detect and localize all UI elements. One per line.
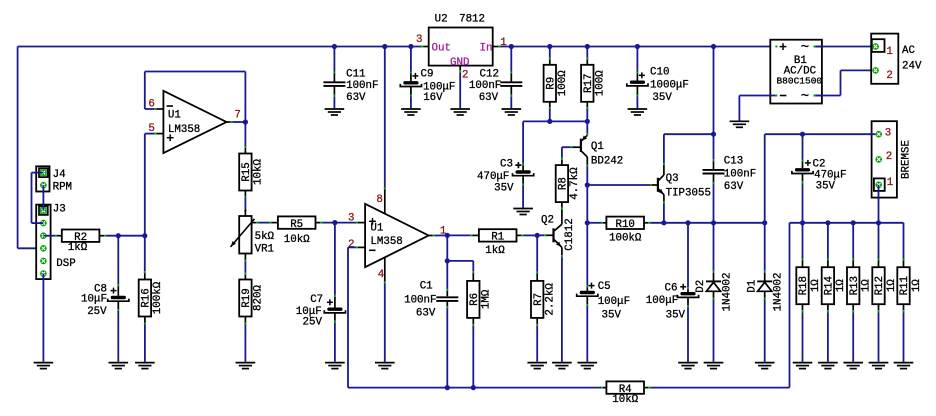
wire J4 pin2 to J3 pin1 xyxy=(42,185,44,210)
svg-text:63V: 63V xyxy=(346,92,366,104)
svg-text:1000μF: 1000μF xyxy=(650,80,689,92)
svg-text:1Ω: 1Ω xyxy=(886,279,898,292)
wire shunt rail xyxy=(790,222,904,224)
svg-text:R10: R10 xyxy=(615,219,634,231)
svg-text:Q2: Q2 xyxy=(541,215,554,227)
node junction U1A output xyxy=(243,119,248,124)
pin 6 of U1A xyxy=(156,108,163,110)
wire J4 pin1 to J3 pin2 xyxy=(32,172,44,174)
ground for R19 xyxy=(236,362,256,364)
pin 3 of U1B xyxy=(358,222,365,224)
wire R5 to pin 3 xyxy=(322,222,356,224)
svg-text:1: 1 xyxy=(887,177,893,189)
svg-text:24V: 24V xyxy=(902,61,922,73)
ground for C8 xyxy=(109,362,129,364)
svg-text:35V: 35V xyxy=(652,92,672,104)
node junction R9 bottom xyxy=(547,119,552,124)
node junction D1 xyxy=(762,220,767,225)
resistor R18 1 ohm xyxy=(802,223,804,259)
svg-text:3: 3 xyxy=(885,127,891,139)
wire R1 to Q2 base xyxy=(523,234,537,236)
svg-text:1Ω: 1Ω xyxy=(861,279,873,292)
svg-text:63V: 63V xyxy=(724,181,744,193)
svg-text:35V: 35V xyxy=(494,183,514,195)
svg-text:U2: U2 xyxy=(435,14,448,26)
ground for C11 xyxy=(325,108,345,110)
diode D2 1N4002 xyxy=(713,223,715,271)
pin 1 of U2 (In) xyxy=(493,46,498,48)
capacitor C1 100nF xyxy=(446,289,448,291)
svg-text:R12: R12 xyxy=(874,276,886,295)
wire U1A feedback loop xyxy=(244,72,246,123)
node junction Q3 base tap xyxy=(585,182,590,187)
wire U1A pin 5 down to R2 net xyxy=(145,133,155,135)
svg-text:63V: 63V xyxy=(479,92,499,104)
svg-text:100nF: 100nF xyxy=(724,168,756,180)
ground for R13 xyxy=(843,362,863,364)
pin 1 of J4 xyxy=(40,169,47,176)
wire BREMSE pin 1 to shunt rail xyxy=(878,185,880,223)
svg-text:R18: R18 xyxy=(798,276,810,295)
svg-text:1: 1 xyxy=(500,37,506,49)
capacitor C8 10uF electrolytic xyxy=(117,236,119,285)
wire Q1 base to R8 xyxy=(562,146,571,148)
wire D1 column upper xyxy=(764,134,766,223)
svg-text:C9: C9 xyxy=(421,69,434,81)
node junction R17 xyxy=(585,44,590,49)
svg-text:4.7kΩ: 4.7kΩ xyxy=(569,167,581,200)
trimmer VR1 5k xyxy=(244,210,246,212)
wire bottom rail right section xyxy=(650,387,789,389)
svg-text:R19: R19 xyxy=(241,288,253,307)
node junction C10 xyxy=(635,44,640,49)
wire +V top rail left section xyxy=(18,46,422,48)
wire B1 - to ground xyxy=(739,95,775,97)
capacitor C3 470uF electrolytic xyxy=(522,164,524,166)
svg-text:2.2kΩ: 2.2kΩ xyxy=(545,283,557,316)
svg-text:R8: R8 xyxy=(558,177,570,190)
ground for D1 xyxy=(755,362,775,364)
resistor R8 4.7k xyxy=(561,158,563,160)
ground for R7 xyxy=(527,362,547,364)
svg-text:1Ω: 1Ω xyxy=(835,279,847,292)
ground for C10 xyxy=(628,108,648,110)
pin 2 of U2 (GND) xyxy=(459,66,461,71)
capacitor C13 100nF xyxy=(713,47,715,135)
voltage regulator U2 7812 xyxy=(429,28,493,66)
wire Q3 emitter to output rail xyxy=(663,203,665,223)
resistor R6 1M xyxy=(472,271,474,273)
svg-text:J4: J4 xyxy=(53,169,66,181)
svg-text:C13: C13 xyxy=(724,155,743,167)
wire B1 ~2 to AC pin 2 xyxy=(816,95,841,97)
ground for J3 xyxy=(34,362,54,364)
svg-text:RPM: RPM xyxy=(53,182,72,194)
svg-text:TIP3055: TIP3055 xyxy=(666,187,711,199)
pin 8 of U1B xyxy=(384,188,386,190)
node junction R17 bottom / Q1 emitter xyxy=(585,119,590,124)
pin 1 of BREMSE xyxy=(875,182,882,189)
node junction R6 tap xyxy=(445,258,450,263)
wire sense riser xyxy=(789,223,791,388)
svg-text:2: 2 xyxy=(348,239,354,251)
resistor R17 100 ohm xyxy=(586,47,588,58)
pin 5 of U1A xyxy=(156,133,163,135)
diode D1 1N4002 xyxy=(764,223,766,271)
ground for C6 xyxy=(678,362,698,364)
resistor R13 1 ohm xyxy=(852,223,854,259)
ground for C5 xyxy=(578,362,598,364)
svg-text:3: 3 xyxy=(416,34,422,46)
svg-text:BD242: BD242 xyxy=(591,156,623,168)
wire U1A output xyxy=(232,121,245,123)
svg-text:R15: R15 xyxy=(241,162,253,181)
pin ~2 of B1 xyxy=(814,95,822,97)
svg-text:C3: C3 xyxy=(500,159,513,171)
svg-text:C1812: C1812 xyxy=(564,218,576,250)
svg-text:LM358: LM358 xyxy=(168,124,200,136)
svg-text:100μF: 100μF xyxy=(598,296,630,308)
capacitor C12 100nF xyxy=(510,47,512,72)
svg-text:35V: 35V xyxy=(666,309,686,321)
svg-text:25V: 25V xyxy=(87,306,107,318)
svg-text:7812: 7812 xyxy=(459,14,485,26)
pin 2 of J4 xyxy=(40,182,47,189)
svg-text:C7: C7 xyxy=(310,294,323,306)
node junction R16 / pin5 xyxy=(142,233,147,238)
capacitor C10 1000uF electrolytic xyxy=(636,47,638,72)
svg-text:In: In xyxy=(480,43,493,55)
capacitor C2 470uF electrolytic xyxy=(802,134,804,159)
svg-text:C6: C6 xyxy=(665,283,678,295)
wire B1 ~1 to AC pin 1 xyxy=(816,46,872,48)
pin - of B1 xyxy=(775,95,777,97)
wire left vertical to J3 xyxy=(17,47,19,249)
pin 3 of BREMSE xyxy=(875,131,882,138)
pin ~1 of B1 xyxy=(814,46,822,48)
svg-text:5kΩ: 5kΩ xyxy=(255,231,275,243)
ground for R12 xyxy=(869,362,889,364)
svg-text:R13: R13 xyxy=(849,276,861,295)
svg-text:1: 1 xyxy=(886,46,892,58)
wire output rail y=222.8 xyxy=(650,222,765,224)
wire op-amp V+ supply (pin 8) xyxy=(384,47,386,188)
svg-text:35V: 35V xyxy=(816,181,836,193)
node junction R12 / BREMSE pin1 xyxy=(876,220,881,225)
transistor Q3 TIP3055 NPN xyxy=(587,184,650,186)
pin 1 of J3 xyxy=(40,207,47,214)
node junction C2 top xyxy=(800,132,805,137)
resistor R5 10k xyxy=(269,222,271,224)
wire pin 2 feedback from bottom rail xyxy=(348,246,356,248)
svg-text:820Ω: 820Ω xyxy=(253,285,265,311)
svg-text:100nF: 100nF xyxy=(404,295,436,307)
wire output node down xyxy=(446,235,448,289)
svg-text:LM358: LM358 xyxy=(370,236,402,248)
svg-text:1kΩ: 1kΩ xyxy=(68,242,88,254)
pin 1 of AC connector xyxy=(872,43,879,50)
svg-text:DSP: DSP xyxy=(56,258,75,270)
svg-text:R11: R11 xyxy=(899,276,911,295)
wire feedback bottom rail xyxy=(348,387,601,389)
bridge rectifier B1 B80C1500 xyxy=(770,40,822,104)
pin 4 of U1B xyxy=(384,257,386,281)
svg-text:10kΩ: 10kΩ xyxy=(253,159,265,185)
svg-text:D1: D1 xyxy=(746,280,758,293)
node junction R6 bottom xyxy=(471,385,476,390)
svg-text:2: 2 xyxy=(886,70,892,82)
resistor R11 1 ohm xyxy=(903,223,905,259)
ground for C9 xyxy=(401,108,421,110)
resistor R19 820 ohm xyxy=(244,273,246,275)
svg-text:100nF: 100nF xyxy=(469,80,501,92)
svg-text:470μF: 470μF xyxy=(477,171,509,183)
transistor Q1 BD242 PNP xyxy=(586,121,588,133)
svg-text:C2: C2 xyxy=(813,158,826,170)
svg-text:Out: Out xyxy=(432,43,451,55)
capacitor C6 100uF electrolytic xyxy=(687,223,689,287)
svg-text:1N4002: 1N4002 xyxy=(722,273,734,312)
capacitor C9 100uF electrolytic xyxy=(410,47,412,72)
wire +24V rail right of U2 xyxy=(500,46,775,48)
ground for C3 xyxy=(513,208,533,210)
capacitor C11 100nF xyxy=(333,47,335,72)
svg-text:C5: C5 xyxy=(598,281,611,293)
svg-text:J3: J3 xyxy=(53,204,66,216)
resistor R16 100k xyxy=(144,236,146,272)
node junction R13 xyxy=(851,220,856,225)
capacitor C5 100uF electrolytic xyxy=(586,223,588,285)
wire pin 4 to ground xyxy=(384,283,386,361)
pin 3 of U2 (Out) xyxy=(421,46,424,48)
wire J3 pin6 to ground xyxy=(42,274,44,362)
svg-text:1MΩ: 1MΩ xyxy=(481,289,493,309)
svg-text:1Ω: 1Ω xyxy=(911,279,923,292)
node junction R18 / C2 bottom xyxy=(800,220,805,225)
svg-text:2: 2 xyxy=(886,151,892,163)
pin 1 of U1B (output) xyxy=(429,235,433,237)
svg-text:Q3: Q3 xyxy=(666,173,679,185)
svg-text:10kΩ: 10kΩ xyxy=(612,394,638,406)
svg-text:R9: R9 xyxy=(545,77,557,90)
node junction C7 xyxy=(332,220,337,225)
resistor R10 100k xyxy=(587,222,601,224)
node junction C9 on top rail xyxy=(408,44,413,49)
pin 5 of J3 xyxy=(40,258,47,265)
op-amp U1 LM358 (unit B) xyxy=(365,204,429,267)
node junction U1B output xyxy=(445,233,450,238)
node junction C12 xyxy=(509,44,514,49)
node junction R9 xyxy=(547,44,552,49)
resistor R15 10k xyxy=(244,122,246,147)
svg-text:U1: U1 xyxy=(168,109,181,121)
svg-text:8: 8 xyxy=(376,194,382,206)
svg-text:R16: R16 xyxy=(141,288,153,307)
svg-text:7: 7 xyxy=(234,109,240,121)
ground for U2 xyxy=(450,108,470,110)
ground for Q2 xyxy=(552,362,572,364)
wire R2 to C8/R16 xyxy=(106,235,145,237)
svg-text:10kΩ: 10kΩ xyxy=(284,234,310,246)
node junction C13 top xyxy=(711,44,716,49)
node junction R1 right / R7 xyxy=(535,233,540,238)
pin 2 of J3 xyxy=(40,220,47,227)
svg-text:~: ~ xyxy=(801,89,809,105)
pin 2 of AC connector xyxy=(872,67,879,74)
svg-text:100nF: 100nF xyxy=(346,80,378,92)
connector BREMSE xyxy=(872,121,897,197)
svg-text:100Ω: 100Ω xyxy=(557,70,569,96)
wire VR1 to R19 xyxy=(244,262,246,273)
resistor R9 100 ohm xyxy=(549,47,551,58)
svg-text:D2: D2 xyxy=(695,280,707,293)
ground for C12 xyxy=(502,108,522,110)
svg-text:16V: 16V xyxy=(423,92,443,104)
svg-text:100Ω: 100Ω xyxy=(595,70,607,96)
node junction R14 xyxy=(825,220,830,225)
node junction op-amp supply on top rail xyxy=(382,44,387,49)
svg-text:R7: R7 xyxy=(533,293,545,306)
svg-text:100kΩ: 100kΩ xyxy=(609,232,642,244)
resistor R7 2.2k xyxy=(536,235,538,271)
node junction Q3 emitter xyxy=(661,220,666,225)
svg-text:1N4002: 1N4002 xyxy=(773,273,785,312)
svg-text:R6: R6 xyxy=(469,293,481,306)
ground for R14 xyxy=(818,362,838,364)
resistor R12 1 ohm xyxy=(878,223,880,259)
wire R6 tap xyxy=(447,260,473,262)
svg-text:~: ~ xyxy=(801,40,809,56)
node junction C6 xyxy=(685,220,690,225)
svg-text:R5: R5 xyxy=(290,219,303,231)
ground for R16 xyxy=(135,362,155,364)
node junction C13 / Q3 collector xyxy=(711,132,716,137)
ground for R18 xyxy=(793,362,813,364)
svg-text:25V: 25V xyxy=(303,317,323,329)
wire U1B output xyxy=(435,234,448,236)
svg-text:1Ω: 1Ω xyxy=(810,279,822,292)
svg-text:B80C1500: B80C1500 xyxy=(776,76,822,87)
svg-text:100kΩ: 100kΩ xyxy=(152,281,164,314)
wire Q1 collector column xyxy=(586,167,588,223)
wire VR1 wiper to R5 xyxy=(258,222,269,224)
svg-text:63V: 63V xyxy=(416,308,436,320)
wire Q2 emitter to ground xyxy=(561,257,563,362)
wire Q2 base from R1 xyxy=(537,234,544,236)
svg-text:R1: R1 xyxy=(491,232,504,244)
ground for B1 xyxy=(730,120,750,122)
transistor Q2 C1812 NPN xyxy=(561,210,563,225)
node junction C8 xyxy=(116,233,121,238)
node junction R10 left / C5 xyxy=(585,220,590,225)
svg-text:35V: 35V xyxy=(602,309,622,321)
wire base-drive rail under R9/R17 xyxy=(523,120,587,122)
op-amp U1 LM358 (unit A) xyxy=(163,91,226,153)
wire Q3 collector to +24V tap xyxy=(663,134,665,163)
ground for D2 xyxy=(704,362,724,364)
svg-text:C12: C12 xyxy=(480,69,499,81)
connector AC 24V xyxy=(871,34,898,84)
svg-text:R17: R17 xyxy=(583,74,595,93)
resistor R14 1 ohm xyxy=(827,223,829,259)
pin 7 of U1A (output) xyxy=(227,121,231,123)
svg-text:C11: C11 xyxy=(346,69,365,81)
node junction C1 bottom xyxy=(445,385,450,390)
svg-text:Q1: Q1 xyxy=(591,141,604,153)
svg-text:C1: C1 xyxy=(420,281,433,293)
svg-text:10μF: 10μF xyxy=(81,294,107,306)
svg-text:1kΩ: 1kΩ xyxy=(485,245,505,257)
wire output to BREMSE pin 3 xyxy=(765,133,876,135)
pin 4 of J3 xyxy=(40,245,47,252)
resistor R2 1k xyxy=(43,235,55,237)
capacitor C7 10uF electrolytic xyxy=(334,223,336,295)
svg-text:U1: U1 xyxy=(370,223,383,235)
ground for U1B pin 4 xyxy=(375,362,395,364)
node junction D2 / C13 xyxy=(711,220,716,225)
connector J4 RPM xyxy=(36,166,49,191)
pin 2 of U1B xyxy=(358,246,365,248)
svg-text:AC: AC xyxy=(902,45,915,57)
node junction C11 on top rail xyxy=(332,44,337,49)
svg-text:C10: C10 xyxy=(650,67,669,79)
svg-text:2: 2 xyxy=(462,70,468,82)
pin + of B1 xyxy=(775,46,777,48)
pin 6 of J3 xyxy=(40,270,47,277)
pin 2 of BREMSE xyxy=(875,156,882,163)
svg-text:4: 4 xyxy=(378,269,384,281)
ground for C7 xyxy=(325,362,345,364)
svg-text:BREMSE: BREMSE xyxy=(901,140,913,179)
connector J3 DSP xyxy=(36,205,50,280)
svg-text:VR1: VR1 xyxy=(255,244,274,256)
resistor R1 1k xyxy=(447,234,470,236)
ground for R11 xyxy=(894,362,914,364)
svg-text:R14: R14 xyxy=(824,276,836,295)
svg-text:100μF: 100μF xyxy=(646,295,678,307)
resistor R4 10k xyxy=(601,387,603,389)
pin 3 of J3 xyxy=(40,232,47,239)
